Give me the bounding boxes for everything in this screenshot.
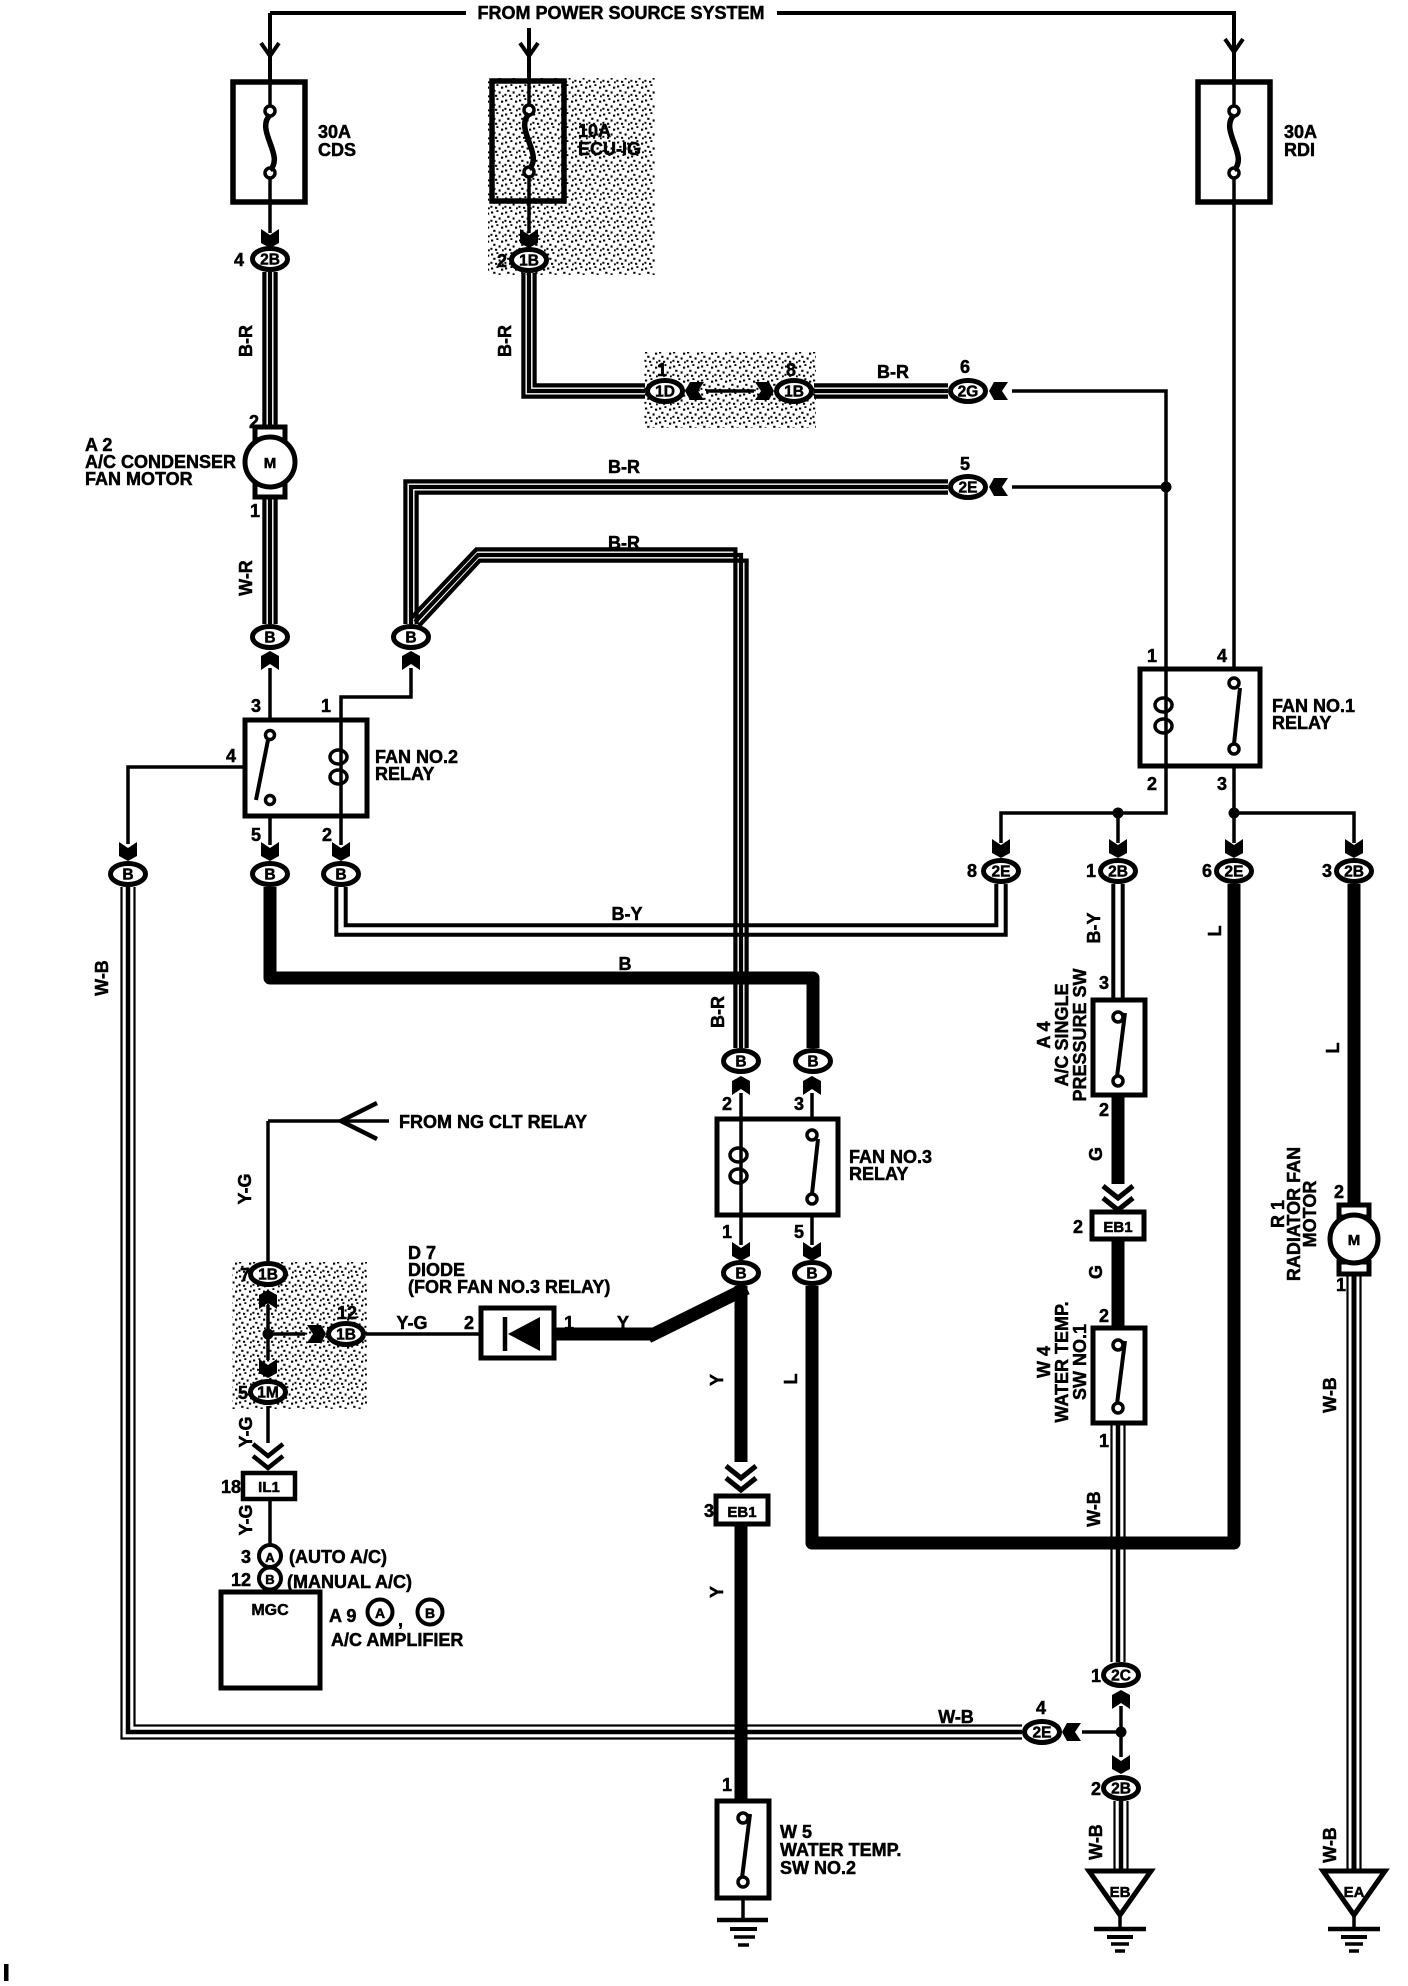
label Y-G wire NG CLT <box>235 1173 255 1204</box>
label A9 A/C amplifier <box>329 1606 463 1650</box>
svg-text:B-R: B-R <box>608 533 640 553</box>
connector 2C pin 1 <box>1104 1665 1139 1686</box>
svg-text:W-B: W-B <box>938 1707 974 1727</box>
svg-text:B: B <box>807 1054 818 1071</box>
svg-text:1B: 1B <box>336 1327 356 1344</box>
label pin 1 of 1D <box>657 360 667 380</box>
svg-text:SW NO.2: SW NO.2 <box>780 1858 856 1878</box>
connector B above relay 2 pin 3 <box>253 627 288 648</box>
arrow into connector 1B(8) <box>755 382 774 400</box>
wire stub pressure sw pin 2 <box>1116 1086 1120 1095</box>
arrow into connector 2C(1) <box>1112 1690 1130 1709</box>
connector 1B pin 7 <box>251 1264 286 1285</box>
label pin 1 radiator motor <box>1336 1275 1346 1295</box>
svg-text:G: G <box>1086 1265 1106 1279</box>
switch W5 water temp sw no.2 <box>717 1801 769 1898</box>
svg-text:A: A <box>265 1550 275 1565</box>
stipple shading behind connectors 1D/1B <box>644 352 816 428</box>
stipple shading behind connectors 1B/1M <box>232 1262 367 1409</box>
fuse 30A CDS <box>233 82 356 202</box>
label pin 6 of 2G <box>960 357 970 377</box>
svg-text:1B: 1B <box>258 1267 278 1284</box>
label pin 3 of EB1 <box>704 1501 714 1521</box>
double chevron arrow into IL1 <box>253 1444 283 1468</box>
wire junction to connector 2C <box>1119 1706 1123 1732</box>
label pin 18 of IL1 <box>221 1477 241 1497</box>
label Y-G wire to IL1 <box>236 1416 256 1447</box>
wire stub water temp sw no.1 pins <box>1116 1328 1120 1423</box>
connector 1B pin 12 <box>329 1324 364 1345</box>
svg-text:B: B <box>265 1572 274 1587</box>
scan artifact left edge mark <box>4 1964 9 1981</box>
arrow into connector B relay 3 pin 1 <box>732 1242 750 1261</box>
connector 2G pin 6 <box>951 381 986 402</box>
svg-text:4: 4 <box>1036 1698 1046 1718</box>
wire between connectors 1D and 1B <box>706 389 754 393</box>
label pin 8 of 2E <box>967 861 977 881</box>
svg-text:1: 1 <box>657 360 667 380</box>
svg-text:1: 1 <box>1147 646 1157 666</box>
label pin 2 relay 1 <box>1147 774 1157 794</box>
label L wire relay 3 <box>781 1374 801 1385</box>
junction node fan no.1 relay pin 2 branch <box>1113 808 1124 819</box>
svg-text:Y-G: Y-G <box>236 1504 256 1535</box>
connector 2B pin 4 below CDS <box>253 249 288 270</box>
wire feed arrow CDS <box>261 43 279 56</box>
wire G pressure sw pin 2 to ground EB1 <box>1112 1095 1125 1184</box>
label pin 3 pressure sw <box>1099 973 1109 993</box>
svg-text:IL1: IL1 <box>258 1479 280 1496</box>
label pin 4 of 2E <box>1036 1698 1046 1718</box>
arrow into connector B from relay 2 pin 3 <box>261 651 279 670</box>
svg-text:5: 5 <box>960 454 970 474</box>
arrow into connector B W-B <box>119 842 137 861</box>
svg-text:2: 2 <box>1073 1217 1083 1237</box>
wire W-B radiator fan motor pin 1 to ground EA <box>1348 1274 1361 1869</box>
wire B-R connector 1B to connector 2G <box>814 385 948 396</box>
label pin 8 of 1B <box>786 360 796 380</box>
svg-text:FROM NG CLT RELAY: FROM NG CLT RELAY <box>399 1112 587 1132</box>
wire Y diode to connector B diagonal <box>654 1291 741 1334</box>
svg-text:WATER TEMP.: WATER TEMP. <box>780 1840 901 1860</box>
svg-text:3: 3 <box>1217 774 1227 794</box>
relay FAN NO.3 <box>717 1119 932 1215</box>
svg-text:B: B <box>806 1266 817 1283</box>
label pin 12 of 1B <box>337 1303 357 1323</box>
svg-text:A 9: A 9 <box>329 1606 356 1626</box>
svg-text:B: B <box>735 1054 746 1071</box>
wire between connectors A and B <box>268 1566 272 1569</box>
wire B connector B to connector B fan no.3 <box>270 887 813 1048</box>
junction node W-B <box>1116 1727 1127 1738</box>
stipple shading behind ECU-IG fuse <box>488 78 655 275</box>
svg-text:B: B <box>619 954 632 974</box>
svg-text:8: 8 <box>786 360 796 380</box>
wire W-B water temp sw no.1 pin 1 to connector 2C <box>1112 1423 1125 1662</box>
motor R1 radiator fan <box>1330 1205 1378 1274</box>
label pin 3 relay 1 <box>1217 774 1227 794</box>
svg-text:Y-G: Y-G <box>236 1416 256 1447</box>
wire CDS fuse to connector 2B <box>268 202 272 233</box>
svg-text:A/C AMPLIFIER: A/C AMPLIFIER <box>331 1630 463 1650</box>
connector B below relay 2 pin 5 <box>253 864 288 885</box>
wire connector B to fan no.3 relay pin 2 <box>739 1093 743 1119</box>
connector B above relay 3 pin 2 <box>724 1051 759 1072</box>
label pin 1 relay 3 <box>722 1222 732 1242</box>
wire B-R connector 2B to A/C condenser fan motor pin 2 <box>264 272 275 427</box>
wire connector B to fan no.3 relay pin 3 <box>810 1093 814 1119</box>
svg-text:1: 1 <box>1086 861 1096 881</box>
label B-R wire to 2E <box>608 457 640 477</box>
svg-text:(FOR FAN NO.3 RELAY): (FOR FAN NO.3 RELAY) <box>408 1277 610 1297</box>
label W5 water temp sw no.2 <box>780 1822 901 1878</box>
label pin 2 of 2B <box>1091 1779 1101 1799</box>
connector 2B pin 3 <box>1337 861 1372 882</box>
connector B below relay 3 pin 1 <box>724 1263 759 1284</box>
label W4 water temp sw no.1 <box>1034 1301 1090 1422</box>
svg-text:B: B <box>122 867 133 884</box>
connector 1B pin 8 <box>777 381 812 402</box>
wire Y ground EB1 to water temp sw no.2 pin 1 <box>735 1524 748 1801</box>
svg-text:2E: 2E <box>959 480 978 497</box>
svg-text:4: 4 <box>234 250 244 270</box>
svg-text:2: 2 <box>249 412 259 432</box>
svg-text:5: 5 <box>238 1383 248 1403</box>
double chevron arrow into EB1 G wire <box>1103 1186 1133 1210</box>
fuse 10A ECU-IG <box>492 81 641 201</box>
svg-text:B: B <box>264 867 275 884</box>
svg-text:B-Y: B-Y <box>1084 913 1104 944</box>
label pin 2 relay 3 <box>722 1094 732 1114</box>
junction node Y-G splitter <box>263 1329 274 1340</box>
arrow into connector B from relay 2 pin 2 <box>332 842 350 861</box>
svg-text:M: M <box>1348 1232 1361 1249</box>
label pin 1 of 2B <box>1086 861 1096 881</box>
svg-text:W-B: W-B <box>1320 1377 1340 1413</box>
label A2 A/C condenser fan motor <box>85 435 236 489</box>
label pin 2 radiator motor <box>1334 1182 1344 1202</box>
svg-text:2: 2 <box>1099 1306 1109 1326</box>
svg-text:2C: 2C <box>1111 1668 1131 1685</box>
wire fan no.3 relay pin 1 to connector B <box>739 1215 743 1245</box>
arrow into connector 2E(5) <box>989 478 1008 496</box>
label pin 5 of 2E <box>960 454 970 474</box>
connector 1B pin 2 below ECU-IG <box>512 250 547 271</box>
svg-text:1: 1 <box>1091 1666 1101 1686</box>
label B-R wire 1B-2G <box>877 362 909 382</box>
svg-text:5: 5 <box>794 1222 804 1242</box>
svg-text:Y-G: Y-G <box>235 1173 255 1204</box>
svg-text:12: 12 <box>337 1303 357 1323</box>
wire Y-G connector 1M to junction block IL1 <box>266 1406 270 1443</box>
svg-text:B: B <box>335 867 346 884</box>
svg-text:1: 1 <box>321 696 331 716</box>
svg-text:M: M <box>264 455 277 472</box>
svg-text:Y: Y <box>707 1374 727 1386</box>
svg-text:6: 6 <box>1202 861 1212 881</box>
relay FAN NO.1 <box>1140 669 1355 766</box>
connector 2B pin 2 <box>1104 1778 1139 1799</box>
label MANUAL A/C <box>287 1572 412 1592</box>
label diode D7 <box>408 1243 610 1297</box>
connector B of A9 <box>418 1600 443 1625</box>
label pin 1 of 2C <box>1091 1666 1101 1686</box>
arrow into connector B relay 3 pin 3 <box>803 1076 821 1095</box>
svg-text:B-R: B-R <box>495 325 515 357</box>
svg-text:2: 2 <box>322 825 332 845</box>
label pin 2 of EB1 <box>1073 1217 1083 1237</box>
svg-text:5: 5 <box>251 825 261 845</box>
svg-text:3: 3 <box>704 1501 714 1521</box>
svg-text:B: B <box>405 630 416 647</box>
ground EB <box>1089 1871 1151 1951</box>
label B-R wire vertical <box>708 996 728 1028</box>
wire B-R connector B to connector 2E pin 5 <box>405 481 948 624</box>
svg-text:W-B: W-B <box>92 960 112 996</box>
wire junction to connector 2B pin 3 <box>1234 813 1354 843</box>
svg-text:1M: 1M <box>257 1385 279 1402</box>
svg-text:Y: Y <box>707 1586 727 1598</box>
connector B manual a/c <box>259 1568 281 1590</box>
ground splice EB1 for G wire <box>1092 1212 1144 1239</box>
wire W-B connector B to connector 2E pin 4 <box>122 887 1023 1739</box>
svg-text:2: 2 <box>1334 1182 1344 1202</box>
label Y-G wire diode <box>396 1313 427 1333</box>
wire junction to connector 2B <box>1119 1732 1123 1757</box>
wire fan no.1 relay pin 3 down <box>1232 766 1236 843</box>
svg-text:RDI: RDI <box>1284 140 1315 160</box>
label pin 3 connector A <box>241 1547 251 1567</box>
svg-text:2: 2 <box>722 1094 732 1114</box>
svg-text:MOTOR: MOTOR <box>1300 1181 1320 1248</box>
svg-text:B-Y: B-Y <box>612 904 643 924</box>
svg-text:2G: 2G <box>958 384 979 401</box>
svg-text:3: 3 <box>241 1547 251 1567</box>
label pin 1 water temp sw1 <box>1099 1431 1109 1451</box>
label R1 radiator fan motor <box>1268 1147 1320 1281</box>
svg-text:WATER TEMP.: WATER TEMP. <box>1052 1301 1072 1422</box>
wire Y connector B to ground EB1 <box>735 1286 748 1462</box>
svg-text:B: B <box>264 630 275 647</box>
ground under water temp sw no.2 <box>717 1920 768 1945</box>
svg-text:2E: 2E <box>1225 864 1244 881</box>
motor A2 A/C condenser fan <box>245 427 295 497</box>
label FROM POWER SOURCE SYSTEM <box>477 3 764 23</box>
label Y wire upper <box>707 1374 727 1386</box>
wire water temp sw no.2 to ground <box>741 1887 745 1919</box>
label pin 5 relay 2 <box>251 825 261 845</box>
wire fan no.1 relay pin 2 to connector 2E pin 8 <box>1001 766 1166 843</box>
svg-text:EB1: EB1 <box>727 1504 756 1521</box>
svg-text:4: 4 <box>226 746 236 766</box>
wire B-Y connector B to connector 2E pin 8 <box>336 884 1005 935</box>
svg-text:G: G <box>1086 1147 1106 1161</box>
fuse 30A RDI <box>1198 82 1317 202</box>
junction node B-R/2E <box>1161 482 1172 493</box>
label pin 12 connector B <box>231 1570 251 1590</box>
label Y wire lower <box>707 1586 727 1598</box>
wire fan no.3 relay pin 5 to connector B <box>810 1215 814 1245</box>
label pin 4 relay 1 <box>1217 646 1227 666</box>
svg-text:1: 1 <box>722 1775 732 1795</box>
arrow into connector 2B(1) <box>1109 839 1127 858</box>
svg-text:A 4: A 4 <box>1034 1021 1054 1048</box>
svg-text:B-R: B-R <box>708 996 728 1028</box>
arrow into connector B from relay 2 pin 5 <box>261 842 279 861</box>
label pin 4 of 2B <box>234 250 244 270</box>
label pin 1 water temp sw2 <box>722 1775 732 1795</box>
arrow into connector B relay 3 pin 5 <box>803 1242 821 1261</box>
label W-R wire <box>236 560 256 596</box>
wire fan no.2 relay pin 2 to connector B <box>339 816 343 845</box>
svg-text:2: 2 <box>1091 1779 1101 1799</box>
svg-text:W 5: W 5 <box>780 1822 812 1842</box>
wire from NG CLT relay <box>268 1119 389 1123</box>
label L wire 2E <box>1205 926 1225 937</box>
svg-text:3: 3 <box>1322 861 1332 881</box>
wire diode D7 internal leads <box>481 1332 554 1336</box>
switch W4 water temp sw no.1 <box>1093 1328 1145 1423</box>
svg-text:8: 8 <box>967 861 977 881</box>
ground splice EB1 for Y wire <box>716 1496 768 1524</box>
wire W-R motor pin 1 to connector B <box>264 497 275 624</box>
svg-text:B: B <box>735 1266 746 1283</box>
svg-text:1B: 1B <box>784 384 804 401</box>
svg-text:EB1: EB1 <box>1103 1219 1132 1236</box>
label B-R wire CDS <box>236 325 256 357</box>
svg-text:2B: 2B <box>260 252 280 269</box>
wire connector 2G to fan no.1 relay pin 1 <box>1012 391 1166 669</box>
wire feed to ECU-IG fuse <box>527 28 531 81</box>
wire Y-G connector 1B to diode D7 pin 2 <box>366 1332 481 1336</box>
label pin 2 of 1B <box>497 251 507 271</box>
wire Y-G junction block IL1 to A/C amplifier <box>268 1499 272 1546</box>
connector A auto a/c <box>259 1545 281 1567</box>
label W-B wire bottom <box>938 1707 974 1727</box>
wire fan no.2 relay pin 1 to connector B <box>341 668 411 720</box>
connector 2E pin 5 <box>951 477 986 498</box>
svg-text:3: 3 <box>794 1094 804 1114</box>
svg-text:18: 18 <box>221 1477 241 1497</box>
svg-text:W 4: W 4 <box>1034 1346 1054 1378</box>
svg-text:B-R: B-R <box>608 457 640 477</box>
label pin 2 pressure sw <box>1099 1100 1109 1120</box>
svg-text:FAN MOTOR: FAN MOTOR <box>85 469 193 489</box>
svg-text:ECU-IG: ECU-IG <box>578 139 641 159</box>
wire stub pressure sw pin 3 <box>1116 1000 1120 1012</box>
junction block IL1 <box>243 1473 295 1499</box>
arrow into connector 1D <box>685 382 704 400</box>
wire L connector 2B to radiator fan motor pin 2 <box>1348 884 1361 1205</box>
connector 2E pin 6 <box>1217 861 1252 882</box>
label pin 7 of 1B <box>240 1265 250 1285</box>
svg-text:RELAY: RELAY <box>375 764 434 784</box>
wire feed arrow RDI <box>1225 39 1243 52</box>
svg-text:B: B <box>425 1605 435 1621</box>
label pin 2 water temp sw1 <box>1099 1306 1109 1326</box>
arrow into connector 2G <box>989 382 1008 400</box>
wire connector B to A/C amplifier <box>268 1588 272 1593</box>
arrow into connector 2E(8) <box>992 839 1010 858</box>
ground EA <box>1323 1871 1385 1951</box>
wire feed arrow ECU-IG <box>520 43 538 56</box>
label pin 3 of 2B <box>1322 861 1332 881</box>
svg-text:2: 2 <box>497 251 507 271</box>
wire from power source system left segment <box>270 11 466 15</box>
wire connector 2E to junction <box>1082 1730 1121 1734</box>
A/C amplifier MGC box <box>221 1592 320 1688</box>
svg-text:MGC: MGC <box>251 1602 289 1619</box>
svg-text:3: 3 <box>1099 973 1109 993</box>
switch A4 A/C single pressure sw <box>1093 1000 1145 1095</box>
label Y wire diode <box>617 1313 629 1333</box>
wire fan no.2 relay pin 5 to connector B <box>268 816 272 845</box>
svg-text:EA: EA <box>1344 1884 1365 1901</box>
svg-text:PRESSURE SW: PRESSURE SW <box>1070 968 1090 1101</box>
svg-text:2E: 2E <box>992 864 1011 881</box>
arrow into connector 2B(2) <box>1112 1755 1130 1774</box>
wire ECU-IG fuse to connector 1B <box>527 202 531 233</box>
label L wire motor <box>1323 1043 1343 1054</box>
connector B below relay 3 pin 5 <box>795 1263 830 1284</box>
label Y-G wire to amplifier <box>236 1504 256 1535</box>
label W-B wire to 2C <box>1084 1491 1104 1527</box>
svg-text:1D: 1D <box>655 384 675 401</box>
arrow into connector B relay 3 pin 2 <box>732 1076 750 1095</box>
label W-B wire left <box>92 960 112 996</box>
label A4 A/C single pressure sw <box>1034 968 1090 1101</box>
svg-text:12: 12 <box>231 1570 251 1590</box>
svg-text:1B: 1B <box>519 253 539 270</box>
svg-text:L: L <box>781 1374 801 1385</box>
relay FAN NO.2 <box>245 720 458 816</box>
connector B above relay 3 pin 3 <box>796 1051 831 1072</box>
svg-text:30A: 30A <box>318 122 351 142</box>
svg-text:2: 2 <box>1147 774 1157 794</box>
arrow into connector 2E(4) <box>1062 1723 1081 1741</box>
wire L fan no.3 relay connector B to connector 2E pin 6 <box>812 884 1234 1543</box>
label pin 5 of 1M <box>238 1383 248 1403</box>
label W-B wire radiator upper <box>1320 1377 1340 1413</box>
wire G ground EB1 to water temp sw no.1 pin 2 <box>1112 1240 1125 1328</box>
wire junction to connectors 1B/1M <box>268 1305 305 1360</box>
connector 1D pin 1 <box>648 381 683 402</box>
wire RDI fuse to fan no.1 relay pin 4 <box>1232 202 1236 669</box>
label pin 2 relay 2 <box>322 825 332 845</box>
svg-text:A/C SINGLE: A/C SINGLE <box>1052 983 1072 1086</box>
wire fan no.2 relay pin 4 to connector B <box>128 767 254 844</box>
label B-R wire ECU-IG <box>495 325 515 357</box>
label pin 4 relay 2 <box>226 746 236 766</box>
wire B-R connector 1B to connector 1D <box>523 273 645 397</box>
wire junction to connector 2B pin 1 <box>1116 813 1120 843</box>
svg-text:10A: 10A <box>578 121 611 141</box>
label pin 2 motor <box>249 412 259 432</box>
label FROM NG CLT RELAY <box>399 1112 587 1132</box>
svg-text:1: 1 <box>722 1222 732 1242</box>
svg-text:1: 1 <box>1336 1275 1346 1295</box>
svg-text:CDS: CDS <box>318 140 356 160</box>
connector B W-B wire <box>111 864 146 885</box>
arrow into connector 1M(5) <box>259 1359 277 1378</box>
svg-text:30A: 30A <box>1284 122 1317 142</box>
svg-text:2B: 2B <box>1108 864 1128 881</box>
connector A of A9 <box>368 1600 393 1625</box>
svg-text:2: 2 <box>1099 1100 1109 1120</box>
svg-text:W-B: W-B <box>1084 1491 1104 1527</box>
svg-text:Y-G: Y-G <box>396 1313 427 1333</box>
svg-text:6: 6 <box>960 357 970 377</box>
